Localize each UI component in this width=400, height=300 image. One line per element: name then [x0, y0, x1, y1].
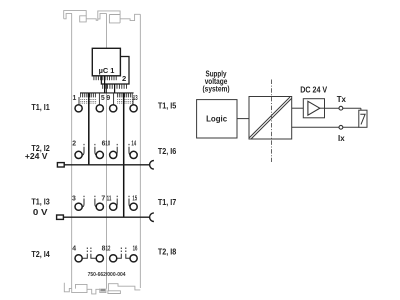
svg-text:14: 14 [131, 141, 136, 148]
contact circle 2 [75, 151, 82, 158]
svg-text:15: 15 [132, 196, 137, 203]
0V rail end arc [150, 213, 154, 222]
wire converter to driver [292, 107, 304, 109]
wire block2 to strip b [114, 84, 116, 93]
sensor switch box [359, 110, 367, 127]
module wall left [71, 13, 73, 288]
stub contact 13 [132, 97, 134, 105]
contact circle 6 [96, 151, 103, 158]
module wall right [139, 14, 141, 288]
hook contact 10 [115, 144, 117, 155]
hook contact 11 [115, 196, 117, 207]
contact circle 8 [96, 255, 103, 262]
comb hatch left row1 [81, 93, 96, 98]
svg-text:Tx: Tx [337, 95, 347, 104]
contact circle 16 [130, 255, 137, 262]
driver triangle [308, 101, 320, 115]
wire Ix line [292, 126, 359, 128]
svg-text:T1, I7: T1, I7 [158, 198, 177, 207]
wire driver to Tx [325, 107, 361, 109]
contact circle 3 [75, 203, 82, 210]
svg-text:T2, I6: T2, I6 [158, 147, 177, 156]
wire logic to converter [237, 118, 249, 120]
Ix node circle [339, 125, 343, 129]
contact circle 1 [75, 105, 82, 112]
dcdc converter box [249, 97, 292, 140]
svg-text:11: 11 [107, 196, 112, 203]
microcontroller block 2 [101, 57, 129, 85]
svg-text:µC 1: µC 1 [99, 66, 115, 75]
driver box [303, 99, 324, 118]
contact circle 9 [110, 105, 117, 112]
dcdc diagonal b [251, 98, 292, 139]
svg-text:+24 V: +24 V [25, 152, 48, 161]
svg-text:1: 1 [73, 95, 77, 102]
Tx node circle [339, 106, 343, 110]
svg-text:DC 24 V: DC 24 V [300, 85, 328, 94]
svg-text:13: 13 [133, 95, 138, 102]
isolation dash-dot line [271, 80, 273, 163]
svg-text:2: 2 [122, 74, 126, 83]
hook contact 15 [129, 196, 131, 207]
sensor switch symbol [360, 114, 365, 124]
svg-text:16: 16 [133, 246, 138, 253]
svg-text:7: 7 [101, 196, 105, 203]
module outline top profile [64, 11, 141, 23]
svg-text:T2, I4: T2, I4 [31, 250, 50, 259]
hook contact 2 [82, 144, 84, 155]
wire block2 to strip a [105, 84, 107, 93]
module wall center [105, 13, 107, 48]
contact circle 5 [96, 105, 103, 112]
svg-text:Ix: Ix [338, 134, 345, 143]
hook contact 3 [82, 196, 84, 207]
hook contact 14 [129, 144, 131, 155]
stub contact 5 [98, 93, 100, 105]
svg-text:750-662/000-004: 750-662/000-004 [88, 272, 126, 278]
svg-text:T1, I3: T1, I3 [31, 198, 50, 207]
logic box [197, 100, 237, 138]
svg-text:5: 5 [101, 95, 105, 102]
wire bus to 0V rail [123, 93, 125, 217]
stub contact 1 [78, 97, 80, 105]
svg-text:12: 12 [106, 246, 111, 253]
contact circle 10 [110, 151, 117, 158]
wire bus to +24V rail [88, 93, 90, 165]
svg-text:T1, I5: T1, I5 [158, 102, 177, 111]
svg-text:T2, I8: T2, I8 [158, 248, 177, 257]
+24V terminal square [57, 163, 64, 167]
dcdc diagonal a [249, 97, 290, 138]
svg-text:0 V: 0 V [33, 208, 49, 217]
0V terminal square [57, 215, 64, 219]
+24V rail end arc [150, 161, 154, 170]
hook contact 6 [95, 144, 97, 155]
link contact 4 [82, 248, 87, 259]
contact circle 11 [110, 203, 117, 210]
svg-text:Logic: Logic [206, 114, 228, 123]
contact circle 14 [130, 151, 137, 158]
link contact 16 [126, 248, 130, 259]
contact circle 12 [110, 255, 117, 262]
module outline bottom profile [64, 283, 140, 294]
svg-text:9: 9 [106, 95, 110, 102]
0V rail [63, 216, 150, 218]
svg-text:10: 10 [105, 141, 110, 148]
svg-text:4: 4 [72, 246, 76, 253]
svg-text:2: 2 [72, 141, 76, 148]
contact circle 13 [130, 105, 137, 112]
svg-text:T1, I1: T1, I1 [31, 103, 50, 112]
link contact 12 [117, 248, 122, 259]
microcontroller block U1 [92, 48, 120, 76]
svg-text:(system): (system) [203, 85, 230, 94]
link contact 8 [91, 248, 96, 259]
comb hatch right row1 [117, 93, 132, 98]
contact circle 15 [130, 203, 137, 210]
contact strip top line row 1 [80, 92, 134, 94]
+24V rail [64, 164, 150, 166]
bottom latch shading [101, 289, 106, 292]
contact circle 4 [75, 255, 82, 262]
pins of uC 1 [94, 76, 116, 80]
stub contact 9 [113, 93, 115, 105]
svg-text:3: 3 [72, 196, 76, 203]
contact circle 7 [96, 203, 103, 210]
hook contact 7 [95, 196, 97, 207]
pins of block 2 [103, 84, 127, 89]
wire uC1 to strip [104, 76, 106, 93]
